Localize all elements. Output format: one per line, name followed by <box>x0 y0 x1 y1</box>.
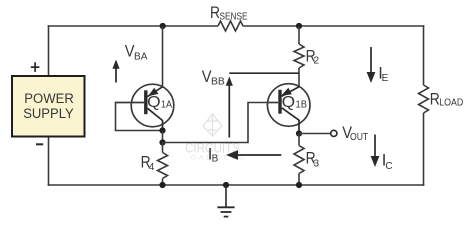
wire VBB reference to emitter <box>229 72 299 74</box>
resistor R2 <box>294 44 304 68</box>
wire base net to Q1B <box>163 103 268 143</box>
wire R3 to bottom rail <box>298 174 300 186</box>
svg-text:BB: BB <box>211 77 225 88</box>
power supply - terminal <box>36 143 43 145</box>
ground <box>217 185 234 217</box>
wire R4 to bottom rail <box>162 179 164 186</box>
junction node R3 / bottom rail <box>296 182 302 188</box>
svg-text:1A: 1A <box>161 100 172 111</box>
annotation arrow VBB <box>226 77 233 138</box>
svg-text:Q: Q <box>282 94 296 111</box>
resistor R3 <box>294 146 304 174</box>
junction node ground / bottom rail <box>223 182 229 188</box>
junction node VOUT <box>296 130 302 136</box>
svg-text:Q: Q <box>147 94 161 111</box>
annotation arrow IE <box>367 47 376 83</box>
wire top rail to R2 <box>298 26 300 44</box>
junction node Q1A emitter / top rail <box>160 23 166 29</box>
resistor R4 <box>158 153 168 179</box>
wire left rail bottom (power supply - to bottom rail) <box>48 137 50 186</box>
svg-text:1B: 1B <box>296 100 308 111</box>
wire top rail right segment <box>243 25 424 27</box>
wire left rail top (power supply + to top rail) <box>48 25 50 76</box>
wire node B to R4 <box>162 143 164 153</box>
junction node R4 / bottom rail <box>159 182 165 188</box>
wire node to R3 <box>298 134 300 146</box>
resistor RLOAD <box>419 85 429 113</box>
svg-text:4: 4 <box>149 162 155 173</box>
terminal VOUT <box>331 130 337 136</box>
power supply box <box>12 76 85 137</box>
junction node R2 / top rail <box>296 23 302 29</box>
svg-text:SUPPLY: SUPPLY <box>23 106 73 121</box>
watermark logo diamond <box>203 114 222 136</box>
transistor Q1A <box>116 84 174 131</box>
wire right rail lower <box>423 113 425 186</box>
power supply + terminal <box>31 62 40 72</box>
svg-text:SENSE: SENSE <box>220 11 248 22</box>
svg-text:B: B <box>212 153 219 164</box>
junction node B (base net tap) <box>159 139 165 145</box>
wire collector to node B <box>162 131 164 143</box>
svg-text:C: C <box>385 161 392 172</box>
annotation arrow IC <box>371 135 380 168</box>
svg-text:OUT: OUT <box>350 132 368 143</box>
svg-text:POWER: POWER <box>24 91 74 106</box>
wire top rail left segment <box>48 25 218 27</box>
svg-text:E: E <box>382 73 389 84</box>
svg-text:LOAD: LOAD <box>439 97 463 108</box>
svg-text:3: 3 <box>314 159 320 170</box>
junction node Q1A base-collector <box>159 127 165 133</box>
transistor Q1B <box>267 84 310 134</box>
wire right rail upper <box>423 25 425 85</box>
svg-text:BA: BA <box>134 52 148 63</box>
annotation arrow IB <box>226 150 281 160</box>
wire bottom rail <box>48 184 425 186</box>
wire R2 to Q1B emitter <box>298 68 300 87</box>
wire Q1A emitter lead <box>162 26 164 87</box>
wire node to VOUT terminal <box>299 133 330 135</box>
resistor RSENSE <box>218 21 243 31</box>
wire Q1A base loop <box>116 102 163 131</box>
annotation arrow VBA <box>112 60 119 83</box>
svg-text:2: 2 <box>314 56 320 67</box>
